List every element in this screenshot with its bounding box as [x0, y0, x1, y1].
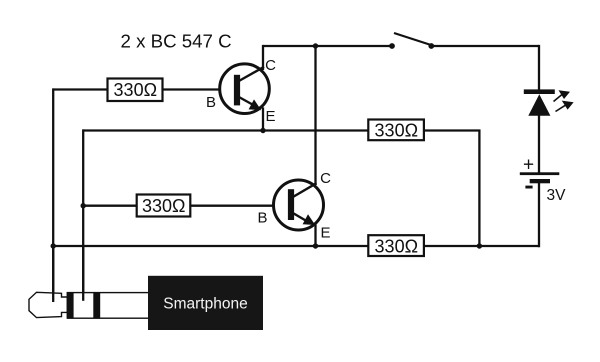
svg-text:C: C	[320, 170, 331, 187]
svg-text:E: E	[265, 108, 275, 125]
svg-text:B: B	[206, 94, 216, 111]
svg-text:330Ω: 330Ω	[114, 80, 158, 100]
svg-text:330Ω: 330Ω	[375, 237, 419, 257]
svg-text:C: C	[265, 57, 276, 74]
svg-text:E: E	[320, 225, 330, 242]
svg-text:B: B	[257, 210, 267, 227]
svg-text:2 x BC 547 C: 2 x BC 547 C	[121, 31, 232, 52]
svg-text:3V: 3V	[547, 187, 567, 204]
svg-text:330Ω: 330Ω	[142, 196, 186, 216]
svg-text:Smartphone: Smartphone	[163, 296, 247, 313]
svg-text:+: +	[523, 155, 534, 176]
svg-text:330Ω: 330Ω	[375, 121, 419, 141]
